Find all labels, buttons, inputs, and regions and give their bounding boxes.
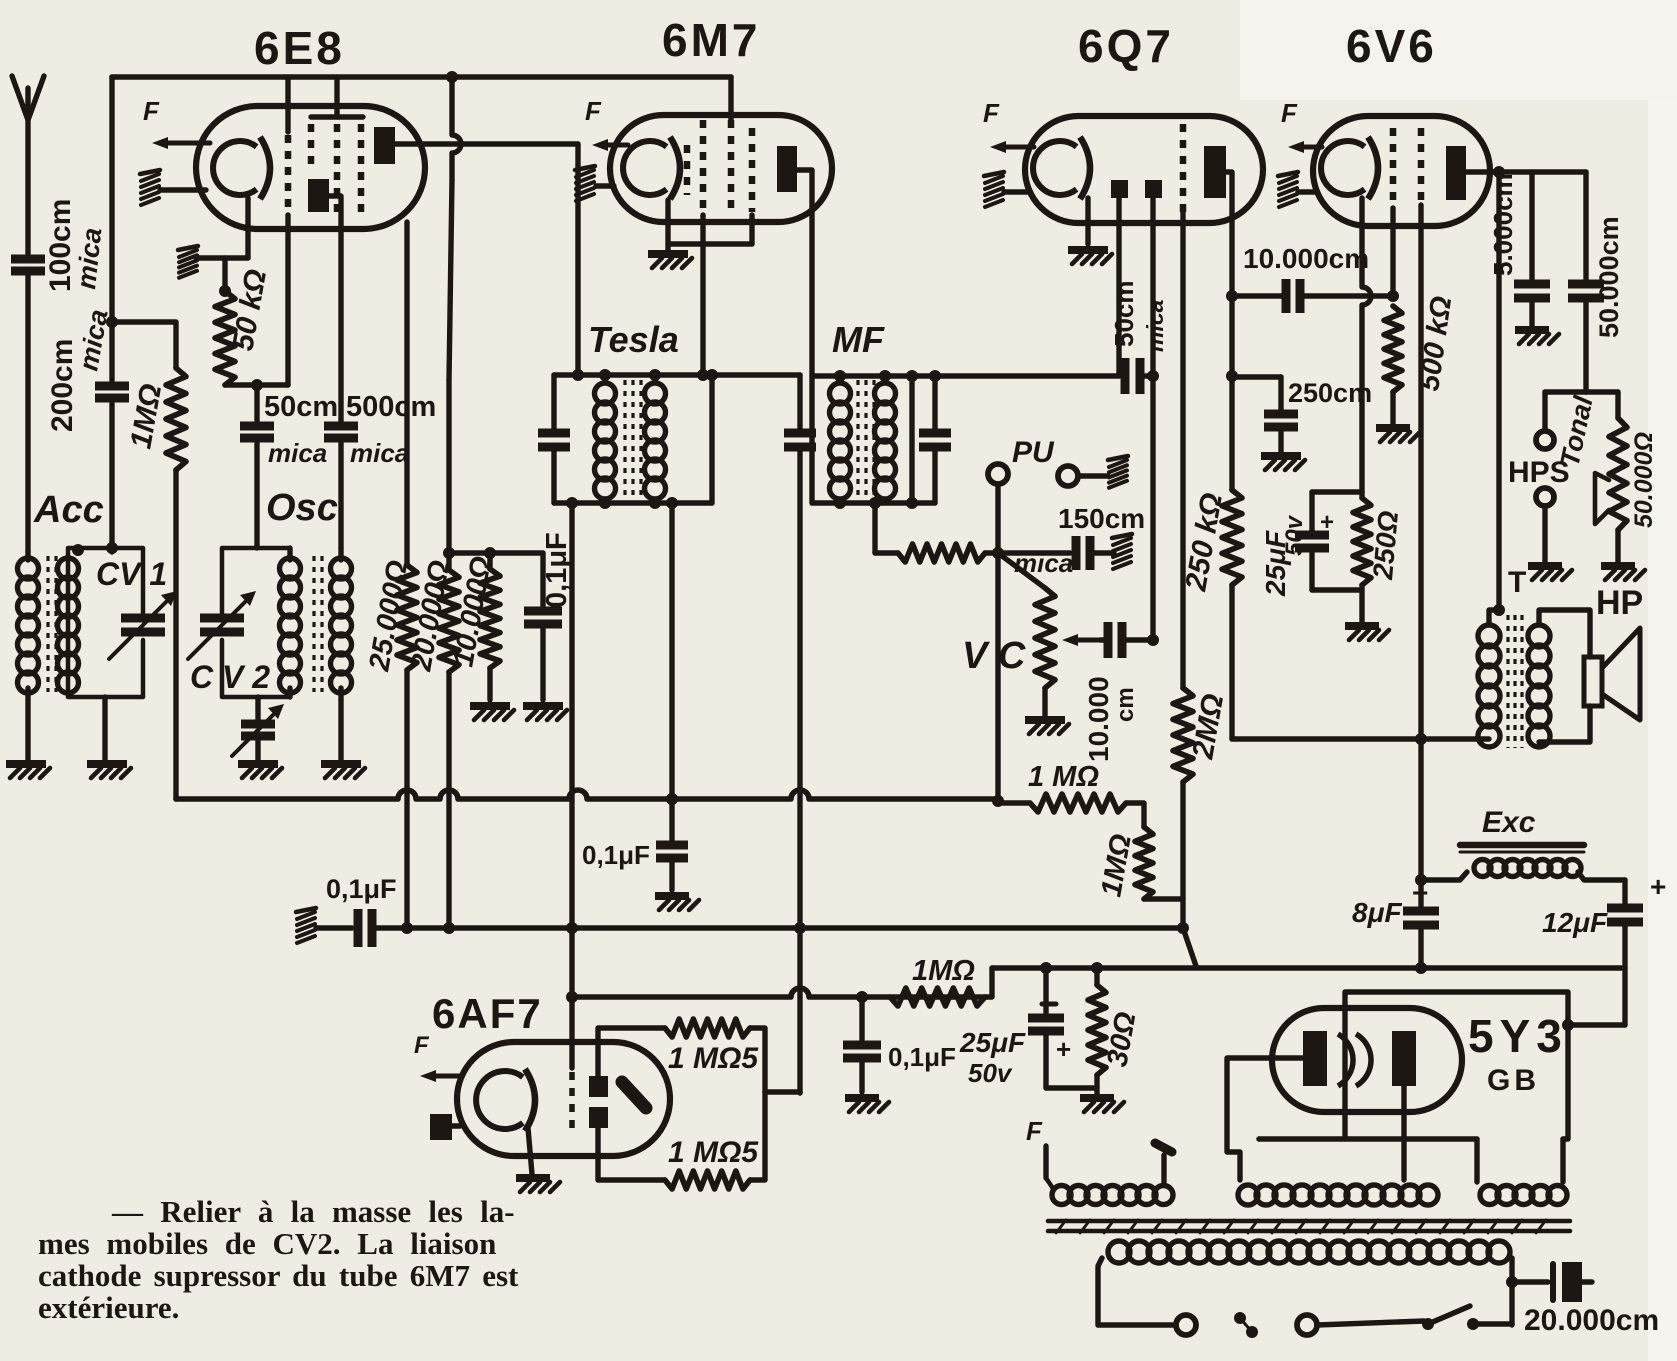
winding mains primary [1108, 1241, 1130, 1263]
terminal mains 2 [1297, 1315, 1317, 1335]
svg-text:50v: 50v [968, 1058, 1013, 1088]
coil Acc primary [25, 552, 30, 560]
wire 6Q7 diode2 drop [1150, 198, 1155, 640]
ground for 6E8 grid circuit [179, 250, 197, 257]
wire 6M7 grid1 to Tesla [700, 215, 705, 375]
capacitor 20.000cm mains [1506, 1276, 1518, 1288]
wire 6V6 anode out [1466, 169, 1586, 174]
anode 6E8 hexode [308, 179, 329, 212]
Tesla top rail [554, 372, 800, 377]
ground chassis at 6M7 filament [576, 170, 594, 177]
svg-text:1 MΩ5: 1 MΩ5 [668, 1042, 759, 1075]
svg-text:0,1μF: 0,1μF [888, 1042, 956, 1072]
terminal HPS upper [1542, 392, 1547, 431]
tube 6V6 envelope [1313, 116, 1490, 226]
svg-text:6V6: 6V6 [1346, 20, 1437, 72]
svg-text:10.000: 10.000 [1083, 676, 1114, 762]
svg-text:0,1μF: 0,1μF [326, 874, 397, 904]
core Acc [46, 556, 49, 692]
resistor 250 ohm [1353, 498, 1371, 585]
anode 6M7 [777, 146, 797, 192]
svg-text:mica: mica [350, 438, 409, 468]
switch mains [1317, 1321, 1424, 1325]
svg-text:0,1μF: 0,1μF [582, 840, 650, 870]
wire T secondary to speaker [1539, 610, 1590, 657]
svg-text:cathode supressor du tube: cathode supressor du tube 6M7 est [38, 1258, 519, 1293]
resistor 20.000 ohm [439, 570, 459, 672]
wire 1M ohm branch [112, 322, 176, 368]
coil Osc tank [338, 548, 343, 560]
resistor 25.000 ohm [397, 565, 417, 670]
tube 6M7 envelope [610, 115, 832, 222]
svg-text:50.000cm: 50.000cm [1594, 216, 1624, 338]
svg-text:200cm: 200cm [46, 339, 79, 432]
ground chassis at 6Q7 filament [985, 176, 1003, 183]
electrode square lower 6AF7 [589, 1107, 608, 1128]
svg-text:— Relier à la masse les: — Relier à la masse les la- [111, 1194, 515, 1229]
cathode 6V6 [1321, 141, 1365, 195]
svg-text:T: T [1508, 566, 1526, 599]
filament arrow F 6E8 [160, 141, 210, 146]
cathode 6Q7 [1033, 141, 1077, 195]
ground chassis at 6E8 filament [141, 174, 159, 181]
svg-text:cm: cm [1112, 687, 1139, 722]
wire grid column x112 from top bus [109, 77, 114, 385]
svg-text:6AF7: 6AF7 [432, 990, 543, 1037]
filament arrow F 6V6 [1296, 145, 1322, 150]
capacitor 12uF [1622, 880, 1627, 908]
terminal PU left [988, 464, 1008, 484]
svg-text:+: + [1320, 509, 1334, 536]
svg-text:1 MΩ5: 1 MΩ5 [668, 1136, 759, 1169]
voltage selector [1234, 1312, 1246, 1324]
svg-text:50.000Ω: 50.000Ω [1630, 432, 1658, 528]
wire rectifier output [1622, 968, 1627, 1025]
transformer T primary [1478, 625, 1500, 647]
svg-text:6Q7: 6Q7 [1078, 20, 1174, 72]
svg-text:20.000cm: 20.000cm [1524, 1304, 1659, 1337]
deflector bar 6AF7 [622, 1082, 646, 1108]
wire CV1 box top feed [106, 542, 118, 554]
svg-text:6E8: 6E8 [254, 22, 345, 74]
wire 5Y3 anode right [1401, 1086, 1406, 1180]
box CV1 tank [68, 548, 143, 697]
terminal mains 1 [1176, 1315, 1196, 1335]
svg-text:F: F [983, 98, 1000, 128]
wire tone split [1545, 389, 1618, 394]
tube 6E8 envelope [196, 106, 425, 229]
wire 6V6 screen B+ [1418, 205, 1423, 911]
wire MF return down [872, 503, 877, 553]
svg-text:+: + [1056, 1034, 1071, 1064]
wire 6M7 grid3 drop from top bus [728, 77, 733, 122]
capacitor 0.1uF af [856, 991, 868, 1003]
wire Tesla coil return to bus1 [669, 503, 674, 799]
field coil Exc [1474, 860, 1491, 877]
bus2 left terminal and 0.1uF [297, 912, 315, 919]
svg-text:GB: GB [1487, 1064, 1540, 1097]
wire AVC column [797, 447, 802, 1093]
wire B+ rail [1232, 736, 1489, 741]
speaker HP [1584, 657, 1602, 706]
anode bar right 5Y3 [1392, 1031, 1416, 1086]
svg-text:5.000cm: 5.000cm [1488, 173, 1518, 276]
svg-text:5Y3: 5Y3 [1468, 1010, 1568, 1062]
capacitor 8uF [1403, 907, 1439, 916]
ground under CV1 box [102, 697, 107, 760]
capacitor 250cm [1232, 374, 1281, 379]
ground chassis at 6V6 filament [1279, 176, 1297, 183]
svg-text:12μF: 12μF [1542, 907, 1608, 938]
resistor detector series [898, 544, 985, 562]
capacitor 50cm mica [254, 385, 259, 424]
svg-text:PU: PU [1012, 436, 1055, 469]
wire 5Y3 anode left [1227, 1058, 1303, 1180]
wire 6AF7 cathode ground [528, 1128, 532, 1174]
grid dashes 6M7 [684, 145, 691, 195]
capacitor 150cm mica [1072, 536, 1081, 570]
filament arrow F 6M7 [600, 143, 628, 148]
svg-text:mica: mica [71, 226, 107, 290]
capacitor padder under CV2 [255, 697, 260, 722]
resistor 1M ohm af [890, 988, 985, 1006]
filament arcs 5Y3 [1338, 1034, 1353, 1086]
cathode 6E8 [213, 141, 257, 195]
winding filament F [1043, 1146, 1048, 1178]
transformer T secondary [1528, 625, 1550, 647]
wire bias column [1043, 968, 1048, 1018]
capacitor MF tuning [932, 376, 937, 432]
chassis plate at 6AF7 wall [430, 1114, 452, 1140]
MF right branch [909, 376, 914, 503]
MF bottom rail [812, 500, 935, 505]
grid dashes 6V6 [1390, 128, 1397, 208]
core T [1506, 615, 1509, 748]
coil Osc feedback [287, 548, 292, 560]
wire Tesla return / 6AF7 deflector feed [569, 503, 574, 1068]
cathode 6M7 [623, 141, 667, 195]
tube 6Q7 envelope [1025, 116, 1263, 223]
resistor 1M5 upper [665, 1019, 750, 1037]
wire 6E8 hexode anode to 500cm line [329, 196, 341, 424]
box CV2 tank [222, 548, 290, 697]
svg-text:50cm: 50cm [1109, 281, 1139, 348]
tube 6AF7 envelope [457, 1042, 670, 1156]
wire VC top diagonal [998, 553, 1045, 588]
capacitor 0.1uF screen [540, 553, 545, 610]
bus1 AVC rail [176, 790, 998, 799]
wire top bus from antenna column to 6M7 grid [112, 74, 731, 80]
svg-text:extérieure.: extérieure. [38, 1290, 179, 1325]
filament arrow F 6Q7 [998, 145, 1034, 150]
wire PU line down to bus1 [995, 553, 1000, 801]
resistor 1M vertical [1135, 827, 1153, 899]
filament arrow F 6AF7 [428, 1074, 460, 1079]
anode bar left 5Y3 [1303, 1031, 1327, 1086]
grid dash 6AF7 [569, 1072, 575, 1130]
svg-text:1 MΩ: 1 MΩ [1028, 761, 1099, 793]
core Osc [312, 556, 315, 692]
ground under VC [1042, 688, 1047, 716]
svg-text:mica: mica [268, 438, 327, 468]
svg-text:Osc: Osc [266, 487, 338, 529]
wire 6M7 suppressor tie [749, 215, 754, 244]
svg-text:8μF: 8μF [1352, 897, 1402, 928]
capacitor 50.000cm [1583, 172, 1588, 282]
resistor 500k ohm [1384, 306, 1402, 392]
wire magic eye grid feed [765, 1089, 800, 1094]
Tesla secondary right branch [709, 375, 714, 503]
capacitor 25uF 50v bias [1028, 1014, 1064, 1023]
antenna [12, 76, 28, 120]
bus jog [1183, 928, 1196, 966]
svg-text:25μF: 25μF [959, 1027, 1026, 1058]
resistor 2M ohm [1173, 688, 1193, 782]
resistor 10.000 ohm [487, 553, 492, 569]
svg-text:6M7: 6M7 [662, 14, 760, 66]
MF left branch [809, 376, 814, 503]
ground under Osc tank coil [338, 700, 343, 760]
capacitor 10.000cm AVC [1104, 622, 1113, 658]
svg-text:500cm: 500cm [346, 391, 436, 423]
winding HT secondary [1238, 1185, 1258, 1205]
svg-text:mes mobiles de CV2. La li: mes mobiles de CV2. La liaison [38, 1226, 496, 1261]
coil Tesla primary [595, 383, 616, 404]
wire 20k column from top bus [452, 77, 461, 180]
wire 50k bottom junction [225, 382, 288, 387]
wire deflector line [572, 988, 985, 997]
wire 25k column from 6E8 [404, 222, 409, 565]
wire to terminals [1098, 1322, 1176, 1327]
capacitor 200cm grid series [95, 382, 129, 391]
svg-text:F: F [414, 1032, 430, 1059]
resistor 30 ohm [1094, 968, 1099, 985]
capacitor 5.000cm [1529, 172, 1534, 282]
resistor 1M5 lower [598, 1128, 665, 1180]
svg-text:50v: 50v [1281, 514, 1308, 556]
capacitor 0.1uF AVC filter [666, 793, 678, 805]
wiper Tonal [1595, 473, 1609, 524]
box 5Y3 output [1345, 992, 1568, 1139]
anode 6E8 triode [374, 127, 395, 164]
wire 6M7 cathode ground [665, 200, 670, 250]
grid bracket 6E8 [311, 114, 363, 119]
terminal PU right [1058, 466, 1078, 486]
MF top rail [812, 373, 1119, 378]
box 25uF 250ohm [1312, 489, 1362, 494]
anode wire 6E8 to Tesla [395, 141, 578, 146]
coil MF primary [830, 383, 851, 404]
wire 6V6 cathode down [1362, 198, 1371, 492]
wire T primary top [1489, 610, 1499, 625]
wire 6V6 grid down [1390, 208, 1395, 296]
electrode square upper 6AF7 [589, 1076, 608, 1097]
wire 6Q7 cathode ground [1085, 198, 1090, 244]
wire upper square to R [598, 1028, 665, 1076]
wire 6V6 anode to T primary [1496, 172, 1501, 610]
Tesla bottom rail [554, 500, 712, 505]
svg-text:250Ω: 250Ω [1367, 509, 1404, 581]
resistor 250k ohm [1222, 490, 1242, 585]
svg-text:50cm: 50cm [264, 391, 338, 423]
svg-text:+: + [1650, 871, 1666, 902]
core Tesla [623, 380, 626, 500]
terminal HPS lower [1536, 488, 1554, 506]
anode 6V6 [1446, 146, 1466, 200]
wire 6Q7 grid drop [1180, 212, 1185, 688]
box 5Y3 bottom rail [1259, 1136, 1477, 1141]
svg-text:F: F [143, 96, 160, 126]
svg-text:10.000cm: 10.000cm [1243, 243, 1369, 274]
wire 6E8 g1 stub [285, 77, 290, 132]
bus2 ground rail [372, 925, 1183, 931]
anode 6Q7 [1204, 146, 1226, 198]
svg-text:F: F [1281, 98, 1298, 128]
wire 6Q7 diode1 drop [1116, 198, 1121, 376]
resistor 50k ohm [222, 258, 227, 291]
diode plate 2 6Q7 [1145, 180, 1162, 198]
wire 6Q7 anode down [1226, 172, 1232, 490]
svg-text:+: + [1412, 877, 1428, 908]
svg-text:Exc: Exc [1482, 806, 1536, 839]
resistor 1M ohm avc2 [1003, 800, 1030, 806]
resistor 1Mohm grid leak [166, 368, 186, 470]
capacitor Tesla primary [551, 375, 556, 432]
svg-text:150cm: 150cm [1058, 503, 1145, 534]
wire 6M7 anode down [797, 170, 812, 375]
grid dash 6Q7 [1180, 124, 1187, 212]
core mains transformer [1048, 1219, 1570, 1224]
capacitor CV1 variable [121, 614, 165, 623]
potentiometer VC [1035, 588, 1055, 688]
coil Acc secondary [58, 558, 79, 579]
grid dashes 6E8 [285, 135, 292, 215]
capacitor 500cm mica [324, 422, 358, 431]
capacitor Tesla AVC [797, 375, 802, 432]
capacitor 50cm mica detector [1121, 358, 1130, 394]
capacitor CV2 variable [200, 614, 244, 623]
wire screen junction [449, 550, 543, 555]
svg-text:CV 1: CV 1 [96, 556, 167, 592]
diode plate 1 6Q7 [1111, 180, 1128, 198]
cathode 6AF7 [476, 1071, 523, 1129]
core MF [856, 380, 859, 500]
svg-text:0,1μF: 0,1μF [541, 532, 573, 608]
svg-text:MF: MF [832, 319, 885, 360]
potentiometer Tonal 50.000ohm [1615, 392, 1620, 418]
capacitor 10.000cm coupling [1232, 293, 1286, 298]
wiper arrow VC [1070, 638, 1108, 643]
coil MF secondary [875, 383, 896, 404]
svg-text:F: F [1026, 1116, 1043, 1146]
capacitor 100cm antenna series [11, 255, 45, 264]
bus3 rail [992, 965, 1625, 970]
svg-text:HP: HP [1596, 584, 1643, 622]
ground under Acc primary [25, 700, 30, 760]
svg-text:C V 2: C V 2 [190, 659, 270, 695]
svg-text:F: F [585, 96, 602, 126]
svg-text:Acc: Acc [33, 489, 104, 531]
wire 6E8 cathode to ground bus [245, 198, 250, 258]
svg-text:1MΩ: 1MΩ [912, 955, 975, 987]
winding 5V [1474, 1139, 1479, 1182]
svg-text:V C: V C [962, 635, 1026, 677]
core Exc [1460, 842, 1584, 849]
svg-text:Tesla: Tesla [588, 319, 679, 360]
tube 5Y3 envelope [1272, 1008, 1462, 1112]
coil Tesla secondary [645, 383, 666, 404]
